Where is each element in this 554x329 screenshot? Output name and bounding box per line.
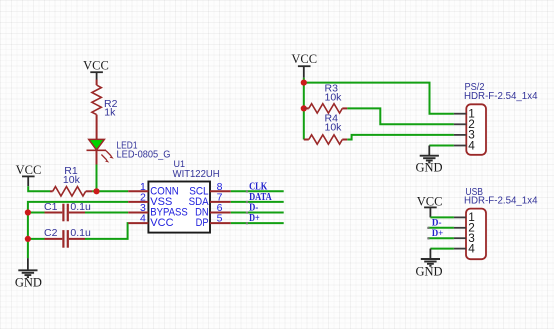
power flag VCC (PS/2 section) bbox=[291, 52, 317, 78]
wire: net DATA bbox=[231, 201, 284, 203]
wire: C2 to U1 pin4 bbox=[85, 223, 128, 239]
svg-text:HDR-F-2.54_1x4: HDR-F-2.54_1x4 bbox=[464, 91, 538, 102]
wire: GND to C2 bbox=[28, 238, 45, 240]
svg-text:VCC: VCC bbox=[83, 58, 109, 72]
wire: VCC left to R1 bbox=[28, 186, 50, 191]
svg-text:DP: DP bbox=[196, 217, 209, 229]
wire: GND to C1 bbox=[28, 212, 45, 214]
svg-text:D-: D- bbox=[432, 218, 442, 228]
svg-text:0.1u: 0.1u bbox=[70, 201, 91, 213]
wire: net D+ bbox=[231, 222, 284, 224]
U1 pin 6 DN bbox=[195, 202, 231, 218]
wire: net CLK bbox=[231, 190, 284, 192]
power flag VCC (top, above R2) bbox=[83, 58, 109, 79]
connector USB HDR-F-2.54_1x4 bbox=[464, 187, 538, 259]
LED LED1 bbox=[87, 139, 171, 164]
wire: VCC down to R3/R4 bbox=[303, 83, 305, 140]
resistor R4 bbox=[304, 113, 348, 145]
svg-text:VCC: VCC bbox=[291, 52, 317, 66]
ground GND (USB) bbox=[415, 249, 442, 279]
IC U1 WIT122UH bbox=[148, 159, 219, 233]
junction C2 left bbox=[25, 236, 31, 242]
svg-text:GND: GND bbox=[415, 161, 442, 175]
resistor R2 bbox=[92, 80, 118, 140]
capacitor C2 bbox=[44, 227, 91, 248]
svg-text:4: 4 bbox=[468, 138, 475, 152]
junction node A (R1/LED/pin1) bbox=[93, 188, 99, 194]
svg-text:GND: GND bbox=[15, 275, 42, 289]
wire: net D- bbox=[231, 212, 284, 214]
wire: GND net vertical + VSS bbox=[28, 202, 128, 258]
U1 pin 8 SCL bbox=[189, 181, 231, 197]
wire: VCC to USB pin1 bbox=[430, 216, 454, 218]
wire: USB pin4 to GND bbox=[430, 248, 454, 250]
U1 pin 1 CONN bbox=[128, 181, 179, 197]
svg-text:10k: 10k bbox=[63, 174, 81, 186]
PS/2 pin 2 bbox=[454, 117, 475, 131]
svg-text:VCC: VCC bbox=[16, 163, 42, 177]
PS/2 pin 1 bbox=[454, 107, 475, 121]
USB pin 1 bbox=[454, 210, 475, 224]
svg-text:VCC: VCC bbox=[150, 217, 173, 229]
power flag VCC (USB section) bbox=[417, 194, 443, 217]
wire: net D- to USB pin2 bbox=[428, 227, 454, 229]
svg-text:10k: 10k bbox=[325, 92, 343, 104]
svg-text:CLK: CLK bbox=[249, 181, 267, 192]
junction VCC/R3 bbox=[301, 105, 307, 111]
U1 pin 4 VCC bbox=[128, 213, 173, 229]
PS/2 pin 4 bbox=[454, 138, 475, 152]
svg-text:LED-0805_G: LED-0805_G bbox=[117, 149, 171, 161]
wire: R4 to PS/2 pin3 bbox=[347, 135, 454, 140]
wire joint markers bbox=[246, 190, 248, 224]
USB pin 4 bbox=[454, 241, 475, 255]
U1 pin 2 VSS bbox=[128, 192, 172, 208]
junction VCC/pin1 bbox=[301, 80, 307, 86]
wire: VCC to PS/2 pin1 bbox=[304, 78, 454, 114]
svg-text:GND: GND bbox=[415, 264, 442, 278]
svg-text:0.1u: 0.1u bbox=[70, 227, 91, 239]
wire: LED to node A bbox=[96, 165, 98, 192]
svg-text:VCC: VCC bbox=[417, 194, 443, 208]
power flag VCC (left, near R1) bbox=[16, 163, 42, 186]
svg-text:D+: D+ bbox=[249, 213, 260, 224]
resistor R1 bbox=[50, 165, 92, 196]
svg-text:HDR-F-2.54_1x4: HDR-F-2.54_1x4 bbox=[464, 195, 538, 206]
ground GND (left) bbox=[15, 258, 42, 289]
ground GND (PS/2) bbox=[415, 146, 442, 175]
capacitor C1 bbox=[44, 201, 91, 221]
svg-text:5: 5 bbox=[217, 213, 223, 225]
resistor R3 bbox=[304, 83, 348, 114]
svg-text:DATA: DATA bbox=[249, 192, 272, 203]
svg-text:1k: 1k bbox=[104, 107, 116, 119]
U1 pin 3 BYPASS bbox=[128, 202, 188, 218]
svg-text:4: 4 bbox=[468, 241, 475, 255]
wire joint markers (USB) bbox=[427, 227, 429, 240]
junction C1 left bbox=[25, 209, 31, 215]
svg-text:C1: C1 bbox=[44, 201, 58, 213]
USB pin 2 bbox=[454, 221, 475, 235]
PS/2 pin 3 bbox=[454, 128, 475, 142]
wire: C1 to U1 pin3 bbox=[85, 212, 128, 214]
svg-text:4: 4 bbox=[140, 213, 146, 225]
wire: R1 to U1 pin1 bbox=[92, 190, 128, 192]
svg-text:WIT122UH: WIT122UH bbox=[173, 169, 220, 180]
wire: net D+ to USB pin3 bbox=[428, 237, 454, 239]
U1 pin 7 SDA bbox=[189, 192, 231, 208]
connector PS/2 HDR-F-2.54_1x4 bbox=[464, 82, 538, 155]
U1 pin 5 DP bbox=[196, 213, 231, 229]
svg-text:10k: 10k bbox=[325, 121, 343, 133]
wire: PS/2 pin4 to GND bbox=[429, 145, 454, 147]
svg-text:U1: U1 bbox=[174, 159, 186, 169]
svg-text:D+: D+ bbox=[432, 229, 443, 239]
USB pin 3 bbox=[454, 231, 475, 245]
wire: R3 to PS/2 pin2 bbox=[347, 108, 454, 124]
svg-text:C2: C2 bbox=[44, 227, 58, 239]
